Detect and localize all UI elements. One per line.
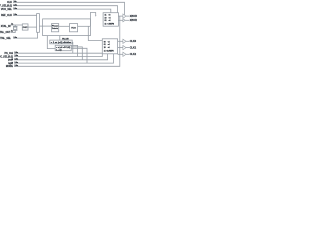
wire aux out xyxy=(118,19,123,21)
wire XTAL_SEL xyxy=(13,32,38,38)
wire REF_CLK xyxy=(13,14,37,16)
wire D2 out to row D xyxy=(71,48,87,63)
svg-text:01 ÷4: 01 ÷4 xyxy=(104,43,110,46)
wire box1 out to buffer xyxy=(118,15,123,17)
wire mux to phase detector xyxy=(39,25,51,27)
wire D1 out to row A xyxy=(71,42,74,53)
svg-text:CLK2: CLK2 xyxy=(130,53,137,56)
svg-text:Detector: Detector xyxy=(52,27,58,30)
svg-text:XBUF1: XBUF1 xyxy=(130,19,137,22)
wire box2 out rowB xyxy=(118,47,123,49)
wire divider D1 input xyxy=(59,36,61,41)
svg-text:MODE: MODE xyxy=(6,65,14,68)
wire T3 out xyxy=(126,47,129,49)
wire S2 xyxy=(13,9,111,13)
crystal Y1 xyxy=(13,25,17,33)
svg-text:00 ÷2: 00 ÷2 xyxy=(104,40,110,43)
svg-text:1 + x(): 1 + x() xyxy=(56,49,62,51)
divider D1 box xyxy=(50,40,72,44)
wire T4 out xyxy=(126,53,129,55)
wire D2 out to row B xyxy=(71,45,77,56)
wire S0 top xyxy=(13,2,125,15)
buffer T2 xyxy=(123,39,126,43)
PLL block xyxy=(43,19,91,36)
wire T1b out xyxy=(125,19,129,21)
wire box2 out rowC xyxy=(118,53,123,55)
svg-text:10 ÷6: 10 ÷6 xyxy=(104,46,110,49)
VCO U3 xyxy=(70,24,78,32)
buffer T3 xyxy=(123,46,126,50)
divider select table box1 xyxy=(103,13,118,27)
wire row D xyxy=(14,54,114,63)
svg-text:REF_CLK: REF_CLK xyxy=(1,14,12,17)
wire feedback to divider D2 xyxy=(47,36,55,49)
arrowhead into divider table 1 xyxy=(95,15,97,16)
wire row B xyxy=(14,54,102,57)
wire XTAL_IN xyxy=(11,24,23,26)
wire box2 out rowA xyxy=(118,40,123,42)
svg-text:XTAL_IN: XTAL_IN xyxy=(1,25,11,28)
svg-text:÷ 1 or (÷2) divider: ÷ 1 or (÷2) divider xyxy=(51,41,72,44)
wire VCO up branch xyxy=(90,13,95,27)
svg-text:CLK1: CLK1 xyxy=(130,47,137,50)
divider select table box2 xyxy=(102,39,117,54)
wire PS_ON row A xyxy=(14,52,102,54)
svg-text:XBUF0: XBUF0 xyxy=(130,15,137,18)
svg-text:VCO_SEL: VCO_SEL xyxy=(1,8,13,11)
wire S1 xyxy=(13,6,118,13)
svg-text:01 ÷6: 01 ÷6 xyxy=(105,19,111,22)
wire row E xyxy=(14,16,120,66)
wire XTAL_OUT xyxy=(11,32,16,34)
svg-text:10 ÷4: 10 ÷4 xyxy=(105,16,111,19)
oscillator OSC box xyxy=(22,24,28,30)
wire PD to VCO xyxy=(59,25,70,27)
divider D2 box xyxy=(55,45,71,50)
wire OSC out xyxy=(28,26,37,28)
phase detector U2 xyxy=(52,24,59,32)
buffer T4 xyxy=(123,52,126,56)
buffer T1b xyxy=(123,19,125,22)
svg-text:CLK0: CLK0 xyxy=(130,40,137,43)
svg-text:OSC: OSC xyxy=(23,27,28,29)
wire T1 out xyxy=(126,15,129,17)
wire VCO out xyxy=(78,25,91,27)
svg-text:11 ÷2xREF8: 11 ÷2xREF8 xyxy=(104,50,114,53)
svg-text:XTAL_SEL: XTAL_SEL xyxy=(0,37,12,40)
buffer T1 xyxy=(123,14,126,18)
mux M1 xyxy=(37,14,40,33)
wire row C xyxy=(14,54,108,60)
wire D2 out to row C xyxy=(71,47,82,60)
svg-text:VCO: VCO xyxy=(71,27,76,29)
wire T2 out xyxy=(126,40,129,42)
svg-text:PB_DIV: PB_DIV xyxy=(62,39,69,41)
svg-text:XTAL_OUT: XTAL_OUT xyxy=(0,31,11,34)
svg-text:11 ÷2: 11 ÷2 xyxy=(105,14,111,17)
svg-text:11 ÷ 2REF8: 11 ÷ 2REF8 xyxy=(105,23,114,26)
wire VCO down branch to divider table 2 xyxy=(88,26,102,40)
